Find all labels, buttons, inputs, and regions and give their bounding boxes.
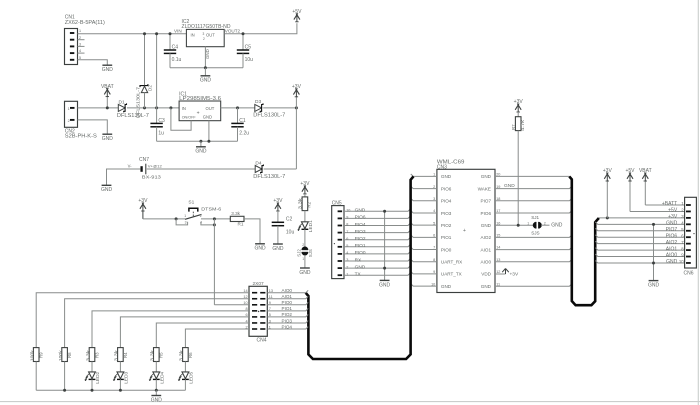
- wire CN3 pin 6: [411, 235, 437, 237]
- svg-text:PIO3: PIO3: [441, 211, 452, 216]
- wire IC2 ground rail: [170, 67, 243, 69]
- svg-text:+3V: +3V: [300, 181, 310, 187]
- svg-text:+5V: +5V: [292, 9, 302, 15]
- ground bottom rail: [151, 395, 161, 397]
- capacitor C2: [272, 221, 284, 223]
- wire CN5 pin 6: [344, 237, 410, 239]
- wire C5 top: [242, 34, 244, 50]
- CN5 center mark: [334, 243, 335, 244]
- wire C3 bottom: [156, 127, 158, 142]
- svg-text:PIO7: PIO7: [666, 227, 678, 233]
- ground IC1: [196, 146, 206, 148]
- wire C5 bottom: [242, 53, 244, 67]
- resistor R1: [230, 216, 244, 221]
- svg-text:PIO3: PIO3: [282, 318, 293, 323]
- ground R1: [255, 243, 265, 245]
- wire IC1 ON/OFF tie: [171, 108, 191, 130]
- svg-text:RX: RX: [355, 257, 362, 263]
- wire LED2 to rail: [91, 379, 93, 390]
- wire CN4 pin 3 to bus: [267, 321, 308, 323]
- svg-text:1: 1: [433, 173, 435, 177]
- wire +3V rail down to D4 row: [295, 108, 297, 169]
- svg-text:S1: S1: [188, 200, 194, 206]
- wire +3V to R7: [517, 112, 519, 117]
- junction R7 at pin16: [517, 224, 520, 227]
- svg-text:PIO1: PIO1: [355, 243, 366, 249]
- connector CN2: [65, 101, 78, 127]
- svg-text:2: 2: [433, 185, 435, 189]
- CN1 pin 4 stub: [70, 52, 74, 54]
- svg-text:2: 2: [302, 243, 304, 247]
- svg-text:UART_RX: UART_RX: [441, 260, 462, 265]
- wire CN6 pin1 +BATT: [645, 181, 685, 205]
- CN1 pin3 stub wire: [78, 45, 85, 47]
- module CN3: [437, 169, 495, 292]
- resistor R6: [183, 348, 189, 362]
- svg-text:10: 10: [346, 209, 350, 213]
- svg-text:GND: GND: [481, 284, 492, 289]
- svg-text:3: 3: [185, 221, 187, 225]
- wire CN3 pin 11 to bus: [495, 284, 572, 286]
- svg-text:GND: GND: [551, 223, 563, 229]
- wire CN4 row to chain 5: [156, 323, 249, 348]
- svg-text:VBAT: VBAT: [101, 84, 114, 90]
- svg-text:6: 6: [433, 234, 435, 238]
- svg-text:OUT: OUT: [206, 33, 215, 38]
- svg-text:R4: R4: [123, 352, 128, 358]
- wire +3V stem CN6: [606, 181, 608, 218]
- junction S1 out top: [213, 217, 216, 220]
- wire CN4 row to chain 1: [36, 293, 249, 348]
- junction D2 bottom: [143, 106, 146, 109]
- svg-text:AIO1: AIO1: [282, 294, 293, 299]
- svg-text:AIO0: AIO0: [666, 253, 678, 259]
- junction rail: [155, 389, 158, 392]
- wire +5V net to D2: [144, 34, 146, 86]
- wire R2 to LED1: [304, 211, 306, 222]
- svg-text:PIO0: PIO0: [282, 300, 293, 305]
- wire CN4 row to chain 6: [185, 329, 249, 348]
- wire R8 to rail: [64, 362, 66, 391]
- svg-text:4: 4: [346, 251, 348, 255]
- wire CN3 pin 2: [411, 186, 437, 188]
- junction D2 top: [143, 32, 146, 35]
- svg-text:PIO7: PIO7: [481, 199, 492, 204]
- wire C1 bottom: [237, 127, 239, 142]
- wire CN6 pin8: [595, 248, 685, 250]
- svg-text:PIO6: PIO6: [355, 215, 366, 221]
- svg-text:3: 3: [433, 197, 435, 201]
- junction rail: [91, 389, 94, 392]
- svg-text:GND: GND: [379, 282, 391, 288]
- svg-text:LED4: LED4: [160, 371, 165, 383]
- svg-text:DFLS130L-7: DFLS130L-7: [136, 86, 141, 118]
- wire D1 to IC1 IN: [127, 107, 179, 109]
- svg-text:C4: C4: [172, 44, 179, 50]
- wire IC1 OUT to D3: [221, 107, 255, 109]
- wire CN3 pin 10: [411, 284, 437, 286]
- power +3V at R2: [302, 185, 306, 191]
- solder jumper SJ2: [302, 247, 308, 250]
- svg-text:3.3k: 3.3k: [179, 349, 184, 361]
- ground CN2: [102, 133, 112, 135]
- ground CN7: [102, 184, 112, 186]
- svg-text:5: 5: [346, 244, 348, 248]
- wire R6 to LED5: [184, 362, 186, 372]
- svg-text:PIO2: PIO2: [441, 223, 452, 228]
- svg-text:ZX62-B-5PA(11): ZX62-B-5PA(11): [65, 20, 105, 26]
- svg-text:GND: GND: [203, 114, 212, 119]
- svg-text:VBAT: VBAT: [639, 168, 652, 174]
- svg-text:+3V: +3V: [514, 99, 524, 105]
- svg-text:100k: 100k: [58, 349, 63, 361]
- svg-text:10u: 10u: [286, 230, 295, 236]
- svg-text:8: 8: [433, 258, 435, 262]
- wire LED4 to rail: [155, 379, 157, 390]
- svg-text:R1: R1: [238, 222, 244, 227]
- svg-text:1: 1: [527, 221, 529, 225]
- svg-text:3: 3: [203, 32, 205, 36]
- wire CN3 pin 5: [411, 223, 437, 225]
- svg-text:GND: GND: [355, 208, 366, 214]
- svg-text:VOUT2: VOUT2: [225, 29, 241, 34]
- svg-text:3.3k: 3.3k: [297, 197, 302, 209]
- svg-text:PIO4: PIO4: [355, 222, 366, 228]
- svg-text:10: 10: [679, 259, 684, 264]
- svg-text:GND: GND: [272, 246, 284, 252]
- svg-text:1: 1: [68, 107, 70, 111]
- CN1 pin 2 stub: [70, 39, 74, 41]
- connector CN4: [249, 286, 267, 336]
- wire R3 to LED2: [91, 362, 93, 372]
- svg-text:D1: D1: [119, 100, 125, 106]
- power +5V: [294, 13, 298, 19]
- resistor R3: [89, 348, 95, 362]
- wire S1 pin2 to R1: [201, 218, 230, 220]
- wire CN5 pin 1: [344, 273, 410, 275]
- sheet frame bottom: [0, 401, 700, 403]
- svg-text:+3V: +3V: [603, 168, 613, 174]
- svg-text:3.3k: 3.3k: [85, 349, 90, 361]
- wire R9 to rail: [35, 362, 37, 391]
- svg-text:9: 9: [346, 216, 348, 220]
- svg-text:0.1u: 0.1u: [172, 57, 182, 63]
- svg-text:ON/OFF: ON/OFF: [182, 115, 197, 119]
- svg-text:10: 10: [431, 282, 435, 286]
- svg-text:7: 7: [346, 230, 348, 234]
- svg-text:VDD: VDD: [481, 272, 491, 277]
- regulator IC1: [179, 101, 221, 121]
- wire ground rail bottom: [36, 389, 185, 391]
- junction VIN top: [155, 32, 158, 35]
- svg-text:VIN: VIN: [174, 29, 182, 34]
- solder jumper SJ1: [533, 222, 536, 228]
- wire CN3 pin 19 (GND) to bus: [495, 186, 572, 188]
- wire CN6 pin4: [595, 222, 685, 224]
- junction +3V stem CN6: [606, 216, 609, 219]
- wire C4 top: [169, 34, 171, 50]
- svg-text:+3V: +3V: [273, 198, 283, 204]
- wire IC1 ground rail: [157, 140, 238, 142]
- wire SJ1 to GND label: [541, 224, 549, 226]
- wire S1 pin4 bracket: [201, 222, 215, 225]
- svg-text:2.2u: 2.2u: [239, 131, 249, 137]
- wire CN4 pin 9 to bus: [267, 302, 308, 304]
- wire CN6 pin10: [595, 261, 685, 263]
- wire +3V to R2: [304, 194, 306, 197]
- svg-text:4.7k: 4.7k: [520, 119, 525, 131]
- wire CN3 pin 4: [411, 211, 437, 213]
- wire CN3 pin 9: [411, 272, 437, 274]
- svg-text:GND: GND: [504, 183, 515, 189]
- wire S1 out down to CN4 pin10: [213, 219, 215, 305]
- diode D2: [140, 84, 148, 87]
- LED LED2: [89, 372, 96, 379]
- svg-text:1u: 1u: [158, 131, 164, 137]
- junction S1 out bottom: [213, 223, 216, 226]
- resistor R8: [62, 348, 68, 362]
- wire S1 to CN4 pin10: [214, 304, 249, 306]
- svg-text:CN4: CN4: [256, 338, 266, 344]
- svg-text:1: 1: [79, 29, 81, 33]
- resistor R5: [154, 348, 160, 362]
- power +3V at R7: [515, 104, 519, 110]
- wire VIN vertical: [156, 34, 158, 108]
- CN6 center mark: [693, 233, 694, 234]
- svg-text:GND: GND: [102, 136, 114, 142]
- power VBAT at CN6: [642, 173, 646, 179]
- wire CN4 pin 11 to bus: [267, 296, 308, 298]
- svg-text:AIO2: AIO2: [481, 235, 492, 240]
- svg-text:1: 1: [302, 257, 304, 261]
- junction S1 pin3 bracket: [175, 217, 178, 220]
- wire CN5 pin 10: [344, 209, 410, 211]
- CN4 center mark: [258, 311, 259, 312]
- connector CN5: [332, 206, 344, 279]
- ground IC2: [201, 75, 211, 77]
- svg-text:C3: C3: [158, 118, 165, 124]
- wire battery V+ to D4: [147, 168, 255, 170]
- wire CN3 pin 12 VDD to +3V: [495, 273, 506, 275]
- svg-text:C1: C1: [239, 118, 246, 124]
- svg-text:CN7: CN7: [139, 157, 149, 163]
- junction CN5 gnd pin2: [383, 267, 386, 270]
- power +3V at CN6: [604, 173, 608, 179]
- wire CN6 pin6: [595, 235, 685, 237]
- wire CN3 pin 7: [411, 247, 437, 249]
- wire CN5 ground drop: [384, 211, 386, 280]
- svg-text:DFLS130L-7: DFLS130L-7: [117, 113, 149, 119]
- wire S1 pin3 bracket: [176, 219, 188, 225]
- svg-text:AIO1: AIO1: [666, 246, 678, 252]
- svg-text:+: +: [463, 228, 466, 234]
- junction rail: [119, 389, 122, 392]
- junction VBAT: [106, 106, 109, 109]
- svg-text:GND: GND: [254, 246, 266, 252]
- svg-text:100k: 100k: [30, 349, 35, 361]
- wire CN4 row to chain 3: [92, 311, 249, 348]
- wire IC1 GND pin: [208, 121, 210, 142]
- diode D4: [255, 166, 262, 173]
- svg-text:D2: D2: [147, 85, 152, 91]
- svg-text:PIO3: PIO3: [355, 229, 366, 235]
- svg-text:R6: R6: [188, 352, 193, 358]
- wire CN3 pin 15 to bus: [495, 235, 572, 237]
- wire LED3 to rail: [119, 379, 121, 390]
- junction CN6 gnd row10: [652, 261, 655, 264]
- diode D1: [118, 104, 125, 111]
- wire CN5 pin 4: [344, 252, 410, 254]
- svg-text:R9: R9: [39, 352, 44, 358]
- junction C1 tap: [236, 106, 239, 109]
- wire CN6 pin2 +5V: [630, 181, 685, 211]
- svg-text:3.3k: 3.3k: [114, 349, 119, 361]
- wire CN6 pin5: [595, 228, 685, 230]
- junction +3V rail: [295, 106, 298, 109]
- svg-text:R5: R5: [159, 352, 164, 358]
- power +3V at D3: [295, 97, 297, 108]
- LED LED3: [117, 372, 124, 379]
- svg-text:GND: GND: [481, 174, 492, 179]
- wire D4 to +3V rail: [264, 168, 297, 170]
- svg-text:PIO6: PIO6: [441, 186, 452, 191]
- svg-text:GND: GND: [666, 259, 678, 265]
- CN1 pin 1 stub: [70, 32, 74, 34]
- svg-text:UART_TX: UART_TX: [441, 272, 462, 277]
- wire CN2 pin2 to ground: [78, 120, 108, 134]
- svg-text:AIO0: AIO0: [481, 260, 492, 265]
- wire CN3 pin 16 to SJ1: [495, 224, 533, 226]
- junction IC2 gnd tap: [204, 66, 207, 69]
- svg-text:DFLS130L-7: DFLS130L-7: [253, 174, 285, 180]
- svg-text:10u: 10u: [245, 57, 254, 63]
- connector CN1: [65, 29, 78, 65]
- wire CN4 pin 7 to bus: [267, 308, 308, 310]
- wire LED5 to rail: [184, 379, 186, 390]
- junction C5 tap: [242, 32, 245, 35]
- wire CN2 pin1 to D1: [78, 107, 119, 109]
- wire rail gnd stem: [155, 390, 157, 395]
- LED LED5: [182, 372, 189, 379]
- wire CN3 pin 17 to bus: [495, 211, 572, 213]
- svg-text:PIO1: PIO1: [441, 235, 452, 240]
- svg-text:GND: GND: [195, 149, 207, 155]
- svg-text:PIO6: PIO6: [481, 211, 492, 216]
- svg-text:5: 5: [433, 221, 435, 225]
- power +3V at VDD: [502, 269, 505, 273]
- resistor R2: [302, 197, 308, 211]
- svg-text:R3: R3: [94, 352, 99, 358]
- ground CN6: [649, 280, 659, 282]
- svg-text:1: 1: [346, 272, 348, 276]
- svg-text:2: 2: [68, 119, 70, 123]
- svg-text:IN: IN: [182, 106, 186, 111]
- svg-text:3.3k: 3.3k: [231, 211, 240, 216]
- junction CN6 gnd row4: [652, 223, 655, 226]
- svg-text:+5V: +5V: [668, 208, 678, 214]
- wire CN3 pin 3: [411, 198, 437, 200]
- svg-text:R7: R7: [511, 124, 516, 130]
- svg-text:OUT: OUT: [206, 106, 215, 111]
- wire +3V to C2: [277, 211, 279, 222]
- svg-text:2: 2: [200, 214, 202, 218]
- svg-text:3.3k: 3.3k: [150, 349, 155, 361]
- wire CN4 pin 5 to bus: [267, 315, 308, 317]
- svg-text:IN: IN: [191, 33, 195, 38]
- power +3V at C2: [275, 203, 279, 209]
- svg-text:PIO2: PIO2: [355, 236, 366, 242]
- wire CN6 ground drop: [653, 224, 655, 280]
- resistor R9: [33, 348, 39, 362]
- wire CN5 pin 5: [344, 244, 410, 246]
- svg-text:+: +: [197, 111, 200, 117]
- svg-text:GND: GND: [441, 174, 452, 179]
- svg-text:GND: GND: [102, 67, 114, 73]
- ground LED1 chain: [300, 267, 310, 269]
- svg-text:7: 7: [433, 246, 435, 250]
- wire IC2 VOUT to +5V: [224, 23, 297, 34]
- power +3V at S1: [140, 203, 144, 209]
- wire CN5 pin 2: [344, 266, 410, 268]
- svg-text:GND: GND: [101, 187, 113, 193]
- svg-text:SJ2: SJ2: [297, 249, 302, 257]
- wire LED1 to SJ2: [304, 229, 306, 247]
- wire CN6 pin9: [595, 254, 685, 256]
- wire R4 to LED3: [119, 362, 121, 372]
- svg-text:S2B-PH-K-S: S2B-PH-K-S: [65, 134, 98, 140]
- wire CN3 pin 8: [411, 259, 437, 261]
- wire CN4 pin 1 to bus: [267, 327, 308, 329]
- svg-text:LED3: LED3: [124, 371, 129, 383]
- wire CN1 pin1 to IC2 VIN: [78, 33, 187, 35]
- svg-text:TX: TX: [355, 272, 362, 278]
- wire CN6 pin7: [595, 241, 685, 243]
- svg-text:D4: D4: [255, 160, 261, 166]
- svg-text:C2: C2: [286, 217, 293, 223]
- LED LED4: [153, 372, 160, 379]
- wire CN3 pin 1: [411, 174, 437, 176]
- svg-text:AIO0: AIO0: [282, 288, 293, 293]
- wire IC2 gnd stem: [204, 68, 206, 76]
- svg-text:R8: R8: [67, 352, 72, 358]
- wire C4 bottom: [169, 53, 171, 67]
- sheet frame right: [697, 0, 699, 405]
- ground C2: [273, 243, 283, 245]
- svg-text:GND: GND: [205, 49, 210, 59]
- svg-text:GND: GND: [441, 284, 452, 289]
- regulator IC2: [186, 29, 224, 46]
- wire +3V to S1: [143, 218, 185, 220]
- svg-text:PIO4: PIO4: [282, 324, 293, 329]
- wire CN1 pin5 to ground: [78, 60, 108, 65]
- svg-text:6: 6: [346, 237, 348, 241]
- wire CN3 pin 18 to bus: [495, 198, 572, 200]
- svg-text:GND: GND: [299, 270, 311, 276]
- power VBAT arrow: [106, 97, 108, 108]
- wire C1 top: [237, 108, 239, 124]
- junction IC1 gnd tap: [199, 140, 202, 143]
- svg-text:BX-913: BX-913: [142, 174, 161, 180]
- svg-text:2: 2: [203, 37, 205, 41]
- svg-text:LED1: LED1: [308, 220, 313, 232]
- junction CN5 gnd pin10: [383, 210, 386, 213]
- wire CN6 pin3 +3V: [599, 217, 685, 219]
- svg-text:4: 4: [433, 209, 435, 213]
- wire C2 to ground: [277, 226, 279, 244]
- svg-text:PIO2: PIO2: [282, 312, 293, 317]
- svg-text:SJ1: SJ1: [531, 215, 539, 220]
- svg-text:R2: R2: [307, 201, 312, 207]
